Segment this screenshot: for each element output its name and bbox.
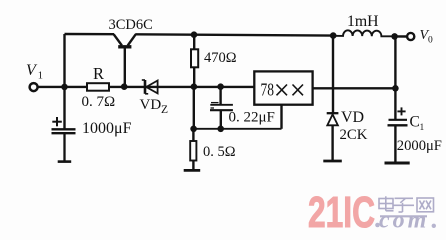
svg-text:V: V bbox=[26, 62, 38, 79]
transistor Q1 3CD6C bbox=[114, 34, 136, 86]
watermark 21IC logo bbox=[308, 188, 436, 237]
input terminal Vi bbox=[30, 83, 38, 91]
op-amp U1 (regulator 78xx box) bbox=[254, 71, 312, 104]
diode VDz (zener, pointing left) bbox=[142, 80, 158, 94]
svg-text:0. 7Ω: 0. 7Ω bbox=[82, 94, 116, 110]
node B (base node dot) bbox=[121, 83, 128, 90]
wire output riser (down to C1) bbox=[394, 36, 396, 119]
resistor R3 0.5 ohm bbox=[190, 129, 196, 170]
label VDz bbox=[140, 97, 169, 116]
wire output stub to terminal bbox=[395, 35, 408, 37]
node I (output top dot) bbox=[391, 33, 398, 40]
ground (below 0.5 ohm) bbox=[184, 169, 201, 172]
svg-text:2000μF: 2000μF bbox=[397, 138, 442, 154]
svg-text:0: 0 bbox=[428, 36, 433, 46]
resistor R1 (R 0.7 ohm) bbox=[87, 83, 109, 91]
output terminal Vo bbox=[407, 33, 414, 40]
resistor R2 470 ohm bbox=[191, 35, 198, 87]
svg-text:Z: Z bbox=[161, 104, 168, 116]
svg-text:78: 78 bbox=[261, 79, 275, 99]
ground (below 1000uF) bbox=[58, 160, 71, 163]
inductor L1 1mH bbox=[333, 30, 394, 36]
svg-text:3CD6C: 3CD6C bbox=[109, 17, 153, 33]
ground (below VD) bbox=[323, 160, 342, 163]
svg-text:1mH: 1mH bbox=[347, 13, 379, 30]
wire top rail left segment bbox=[65, 33, 115, 36]
wire ground link line bbox=[194, 128, 282, 130]
label V1 bbox=[26, 62, 43, 82]
wire riser down from node C bbox=[193, 87, 195, 129]
capacitor C1 2000uF plates bbox=[388, 120, 408, 163]
node D (dot on top rail above 470) bbox=[191, 31, 198, 38]
label 78xx bbox=[261, 79, 275, 99]
capacitor 1000uF plates bbox=[52, 129, 76, 161]
svg-text:2CK: 2CK bbox=[340, 127, 368, 143]
node J (output line meets riser) bbox=[392, 85, 399, 92]
wire top rail right segment bbox=[135, 34, 333, 35]
wire U1 ground pin bbox=[280, 105, 282, 129]
node G (0.22uF bottom dot) bbox=[217, 126, 224, 133]
plus sign of C1 bbox=[397, 107, 405, 115]
svg-text:21IC: 21IC bbox=[308, 188, 375, 237]
svg-text:1000μF: 1000μF bbox=[82, 120, 132, 137]
ground (below C1) bbox=[385, 162, 410, 165]
svg-text:470Ω: 470Ω bbox=[204, 50, 237, 66]
label C1 bbox=[410, 114, 425, 133]
svg-text:1: 1 bbox=[38, 70, 43, 81]
capacitor 1000uF (lead) bbox=[63, 87, 65, 129]
wire U1 output line bbox=[313, 87, 396, 89]
svg-text:VD: VD bbox=[341, 109, 364, 126]
wire left riser (input node up to top rail) bbox=[63, 34, 65, 87]
node A (input junction dot) bbox=[61, 84, 68, 91]
node C (470/0.5 ohm rail dot) bbox=[191, 83, 198, 90]
node F (0.22uF rail dot) bbox=[217, 83, 224, 90]
svg-text:R: R bbox=[93, 64, 104, 83]
capacitor C2 0.22uF bbox=[210, 87, 233, 129]
watermark chinese characters 电子网 bbox=[379, 196, 434, 212]
wire main rail (Vi to 78xx input) bbox=[38, 86, 255, 88]
wire riser VD (switch node down) bbox=[332, 36, 334, 113]
node E (dot lower-left of link line) bbox=[190, 126, 197, 133]
svg-text:C: C bbox=[410, 114, 420, 131]
svg-text:VD: VD bbox=[140, 97, 162, 113]
label Vo bbox=[420, 28, 434, 46]
svg-text:1: 1 bbox=[420, 123, 425, 133]
node H (dot on top rail, switch node) bbox=[330, 32, 337, 39]
diode VD1 2CK (freewheel, pointing up) bbox=[327, 113, 339, 160]
svg-text:0. 22μF: 0. 22μF bbox=[229, 109, 275, 125]
svg-text:0. 5Ω: 0. 5Ω bbox=[203, 144, 236, 160]
plus sign of 1000uF bbox=[52, 117, 62, 126]
